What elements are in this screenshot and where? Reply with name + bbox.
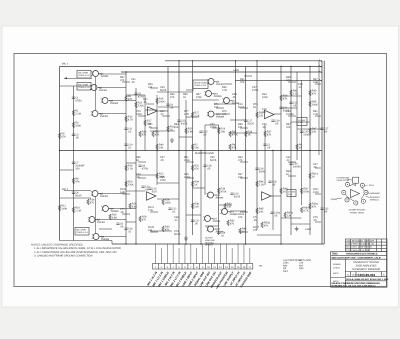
- resistor R16: [109, 214, 111, 220]
- resistor R19: [139, 131, 141, 137]
- bus 2 end tick: [319, 65, 322, 67]
- wire h110: [145, 109, 157, 111]
- capacitor C3: [72, 134, 75, 135]
- wire h199 feedback low: [157, 198, 179, 200]
- resistor R33a: [309, 203, 311, 209]
- resistor R41: [290, 90, 292, 96]
- wire h218: [281, 217, 302, 219]
- svg-text:R4510K: R4510K: [259, 208, 264, 214]
- svg-text:R9347K: R9347K: [238, 156, 243, 162]
- resistor R32: [191, 165, 193, 171]
- svg-text:(GRN): (GRN): [331, 198, 337, 201]
- capacitor C20: [230, 193, 233, 194]
- wire vertical x179: [178, 61, 180, 244]
- svg-text:R3947K: R3947K: [283, 95, 288, 101]
- transistor Q10 leads: [204, 92, 214, 96]
- bus 4 end tick: [319, 79, 322, 81]
- transistor Q12 leads: [207, 112, 217, 116]
- wire h226: [205, 225, 219, 227]
- resistor R44: [239, 228, 241, 234]
- wire stub: [162, 115, 170, 117]
- wire h95: [126, 94, 145, 96]
- wire h122: [291, 121, 310, 123]
- wire vertical x218: [218, 125, 220, 235]
- svg-text:MIC 2: MIC 2: [62, 188, 69, 191]
- wire h104: [214, 103, 236, 105]
- wire Q2 output: [98, 87, 126, 89]
- resistor R37: [264, 131, 266, 137]
- resistor R49: [156, 144, 158, 150]
- transistor Q3 leads: [101, 99, 111, 103]
- wire right edge inner: [321, 61, 323, 244]
- capacitor C2: [263, 144, 266, 145]
- resistor R40: [224, 203, 226, 209]
- resistor R50: [300, 188, 302, 194]
- svg-text:DRAWN: DRAWN: [333, 263, 341, 266]
- resistor R20: [125, 181, 127, 187]
- wire h224: [291, 223, 310, 225]
- wire left edge: [59, 67, 61, 241]
- capacitor C23: [289, 102, 292, 103]
- wire stub: [315, 83, 321, 85]
- wire vertical x192: [192, 61, 194, 235]
- wire stub: [240, 107, 248, 109]
- wire left column junction: [95, 77, 97, 110]
- wire h92: [157, 91, 193, 93]
- wire stub: [138, 115, 146, 117]
- socket leader lines: [336, 179, 370, 199]
- transistor Q16: [208, 226, 214, 232]
- svg-text:INTERSTAGETRIAD A-31X: INTERSTAGETRIAD A-31X: [194, 81, 207, 86]
- svg-text:R7947K: R7947K: [222, 110, 227, 116]
- wire h170: [60, 169, 74, 171]
- wire h108: [281, 107, 297, 109]
- svg-text:TRIO: TRIO: [332, 253, 338, 256]
- svg-text:+48V: +48V: [233, 69, 239, 72]
- svg-text:IN INCHES TOL .XX ±.02 .XXX ±.: IN INCHES TOL .XX ±.02 .XXX ±.005 ANG ±1: [332, 285, 377, 288]
- svg-text:UNIVERSITY SOUND: UNIVERSITY SOUND: [353, 261, 379, 264]
- svg-text:R111100K: R111100K: [313, 188, 319, 194]
- transformer T2 box: [77, 83, 91, 91]
- svg-text:MIC XFMRTRIAD A-11J: MIC XFMRTRIAD A-11J: [78, 84, 90, 89]
- wire h163: [126, 162, 136, 164]
- svg-text:20/20 AMPLIFIER: 20/20 AMPLIFIER: [355, 265, 377, 268]
- wire left box bottom: [60, 240, 107, 242]
- wire stub: [240, 177, 248, 179]
- transistor Q4 leads: [91, 112, 101, 116]
- wire Q8 out: [99, 236, 126, 238]
- wire stub: [150, 127, 158, 129]
- resistor R13: [125, 116, 127, 122]
- wire top bus 1: [165, 60, 322, 62]
- resistor R47a: [284, 212, 286, 218]
- resistor R47: [309, 128, 311, 134]
- svg-text:R3047K: R3047K: [165, 226, 170, 232]
- capacitor C7: [72, 162, 75, 163]
- wire vertical x205: [204, 125, 206, 195]
- resistor R4: [229, 144, 231, 150]
- wire step vertical: [106, 240, 112, 242]
- svg-text:+ PIN 1: + PIN 1: [367, 184, 375, 187]
- transistor Q9: [208, 79, 214, 85]
- wire h117: [186, 116, 199, 118]
- socket amplifier triangle: [351, 190, 360, 198]
- wire Q3 output: [109, 100, 136, 102]
- wire stub: [288, 115, 296, 117]
- wire top bus 2 (B+): [60, 66, 323, 68]
- svg-text:SCALE: NONE DO NOT SCALE SHT: SCALE: NONE DO NOT SCALE SHT 1 OF 1: [346, 278, 389, 281]
- capacitor C1: [72, 97, 75, 98]
- wire h196: [271, 195, 281, 197]
- resistor R21: [152, 131, 154, 137]
- capacitor C13: [177, 120, 180, 121]
- resistor R9: [125, 96, 127, 102]
- svg-text:R5147K: R5147K: [120, 76, 125, 82]
- wire top bus 3 (+48V): [121, 71, 322, 73]
- socket connecting arcs: [345, 183, 364, 201]
- wire stub: [288, 175, 296, 177]
- socket J4 detail: [342, 182, 368, 205]
- wire vertical x168: [167, 67, 169, 151]
- resistor R35: [256, 112, 258, 118]
- wire vertical x301: [301, 80, 303, 205]
- resistor R24: [162, 199, 164, 205]
- resistor R15: [156, 98, 158, 104]
- capacitor C27: [320, 128, 323, 129]
- resistor R39: [280, 95, 282, 101]
- capacitor C29a: [270, 212, 273, 213]
- resistor R33: [245, 131, 247, 137]
- resistor R10: [72, 207, 74, 213]
- wire Q1 collector: [99, 73, 126, 75]
- wire stub: [315, 193, 321, 195]
- svg-text:1300-89-002: 1300-89-002: [358, 273, 375, 277]
- wire stub: [138, 161, 146, 163]
- drawing border frame: [14, 54, 387, 287]
- svg-text:R6947K: R6947K: [170, 93, 175, 99]
- svg-text:UNLESS OTHERWISE SPECIFIED DIM: UNLESS OTHERWISE SPECIFIED DIMENSIONS: [332, 282, 381, 285]
- wire stub: [240, 161, 248, 163]
- wire vertical x126: [125, 72, 127, 244]
- svg-text:3. CHASSIS AND FRAME GROUND CO: 3. CHASSIS AND FRAME GROUND CONNECTION: [34, 254, 93, 257]
- transistor Q8: [93, 234, 99, 240]
- capacitor C16: [148, 188, 151, 189]
- wire vertical x319: [318, 61, 320, 155]
- wire left column junction low: [95, 197, 97, 233]
- wire stub: [150, 87, 158, 89]
- ground symbol G3: [170, 138, 174, 142]
- svg-text:MIC XFMRTRIAD A-11J: MIC XFMRTRIAD A-11J: [76, 229, 88, 234]
- wire mid ground bus: [60, 150, 323, 152]
- transformer T1 box: [77, 71, 91, 79]
- transistor Q11: [224, 98, 230, 104]
- resistor R49a: [300, 207, 302, 213]
- resistor R31: [229, 131, 231, 137]
- wire stub: [224, 83, 232, 85]
- capacitor C10: [141, 186, 144, 187]
- svg-text:R8722K: R8722K: [286, 123, 291, 129]
- svg-text:R4022K: R4022K: [227, 203, 232, 209]
- wire stub: [138, 177, 146, 179]
- svg-text:BRN/WHT: BRN/WHT: [371, 192, 381, 195]
- wire h191: [126, 190, 145, 192]
- transistor Q4: [92, 111, 98, 117]
- wire input line 4: [60, 197, 92, 199]
- wire h125: [205, 124, 219, 126]
- title block: [331, 239, 387, 287]
- wire stub: [216, 107, 224, 109]
- wire vertical x157: [156, 95, 158, 185]
- resistor R2: [191, 144, 193, 150]
- wire stub: [150, 231, 158, 233]
- terminal strip riser wires: [155, 244, 249, 264]
- resistor R8: [72, 178, 74, 184]
- transistor Q12: [208, 111, 214, 117]
- socket keyway box: [353, 177, 359, 183]
- wire right edge outer: [323, 61, 325, 244]
- wire h137: [179, 136, 193, 138]
- resistor R23: [167, 126, 169, 132]
- wire vertical x145: [144, 95, 146, 151]
- wire stub: [240, 211, 248, 213]
- wire top bus 4: [235, 79, 322, 81]
- svg-text:R6122K: R6122K: [240, 78, 245, 84]
- op-amp U4: [262, 192, 272, 200]
- wire stub: [186, 177, 194, 179]
- resistor R31a: [309, 173, 311, 179]
- svg-text:R3810K: R3810K: [194, 203, 199, 209]
- op-amp U2: [265, 110, 275, 118]
- svg-text:APPD: APPD: [333, 272, 339, 275]
- capacitor C25: [300, 131, 303, 132]
- bus 1 end tick: [319, 60, 322, 62]
- resistor R46: [256, 181, 258, 187]
- resistor R17: [144, 120, 146, 126]
- transistor Q14 leads: [220, 210, 230, 214]
- capacitor C4: [72, 192, 75, 193]
- svg-text:+24V: +24V: [305, 228, 311, 231]
- transistor Q6: [103, 206, 109, 212]
- svg-text:R4910K: R4910K: [159, 144, 164, 150]
- op-amp U1: [148, 107, 158, 115]
- capacitor C11: [124, 128, 127, 129]
- transistor Q16 leads: [206, 227, 216, 231]
- wire stub: [288, 161, 296, 163]
- resistor R27: [191, 112, 193, 118]
- svg-text:R3247K: R3247K: [194, 165, 199, 171]
- wire h175: [136, 174, 157, 176]
- svg-text:R4710K: R4710K: [312, 128, 317, 134]
- svg-text:9545 COZYCROFT AVE · CHATSWORT: 9545 COZYCROFT AVE · CHATSWORTH, CALIF.: [332, 257, 382, 260]
- wire h111 feedback: [157, 110, 168, 112]
- wire stub: [150, 211, 158, 213]
- capacitor C9: [166, 104, 169, 105]
- transistor Q7 leads: [88, 218, 98, 222]
- resistor R42: [227, 220, 229, 226]
- svg-text:VANGUARD ELECTRONICS: VANGUARD ELECTRONICS: [346, 253, 378, 256]
- transistor Q2 leads: [90, 86, 100, 90]
- svg-text:R8310K: R8310K: [174, 123, 179, 129]
- wire vertical x235: [235, 61, 237, 151]
- wire vertical x281: [280, 67, 282, 245]
- transistor Q5: [92, 191, 98, 197]
- svg-text:R2910K: R2910K: [221, 128, 226, 134]
- wire vertical x257: [256, 61, 258, 230]
- choke L2 box: [287, 190, 296, 197]
- transistor Q15 leads: [203, 217, 213, 221]
- wire h107: [158, 106, 179, 108]
- capacitor C21: [279, 107, 282, 108]
- transistor Q14: [222, 209, 228, 215]
- wire h100: [193, 99, 219, 101]
- wire h211: [230, 210, 246, 212]
- resistor R25: [185, 128, 187, 134]
- resistor R48: [280, 188, 282, 194]
- wire vertical x265: [264, 125, 266, 185]
- transistor Q1 leads: [91, 72, 101, 76]
- wire stub: [315, 167, 321, 169]
- wire h129: [297, 128, 322, 130]
- svg-text:R2147K: R2147K: [155, 131, 160, 137]
- resistor R34: [191, 181, 193, 187]
- ground symbol G2: [184, 236, 188, 240]
- wire vertical x273: [272, 151, 274, 231]
- wire Q5 out: [98, 193, 126, 195]
- wire h120: [230, 119, 246, 121]
- capacitor C28: [268, 181, 271, 182]
- wire vertical x201: [200, 151, 202, 245]
- wire input line 3: [64, 190, 91, 192]
- choke L1 box: [297, 118, 307, 126]
- resistor R18: [125, 165, 127, 171]
- wire stub: [186, 89, 194, 91]
- capacitor C17: [244, 120, 247, 121]
- svg-text:FRONT VIEW: FRONT VIEW: [350, 212, 365, 215]
- svg-text:A REV PER ECO 1042 8-4 JW: A REV PER ECO 1042 8-4 JW: [346, 243, 373, 246]
- capacitor C6: [116, 223, 119, 224]
- svg-text:MIC 1: MIC 1: [62, 63, 69, 66]
- wire stub: [288, 81, 296, 83]
- wire stub: [244, 75, 252, 77]
- resistor R22: [156, 173, 158, 179]
- resistor R6: [296, 144, 298, 150]
- wire vertical x73: [72, 86, 74, 241]
- wire stub: [240, 127, 248, 129]
- wire stub: [122, 81, 130, 83]
- transistor Q6 leads: [101, 207, 111, 211]
- resistor R26: [129, 203, 131, 209]
- transformer T3 box: [75, 228, 89, 236]
- wire vertical x186: [185, 100, 187, 244]
- resistor R3: [72, 122, 74, 128]
- capacitor C22: [191, 220, 194, 221]
- transistor Q2: [91, 85, 97, 91]
- transistor Q15: [205, 216, 211, 222]
- wire vertical x291: [290, 67, 292, 236]
- wire stub: [315, 115, 321, 117]
- svg-text:2. ALL CAPACITANCE VALUES ARE: 2. ALL CAPACITANCE VALUES ARE IN MICROFA…: [33, 251, 117, 254]
- svg-text:SCHEMATIC DIAGRAM: SCHEMATIC DIAGRAM: [352, 268, 381, 271]
- transistor Q13 leads: [206, 193, 216, 197]
- capacitor C26: [255, 168, 258, 169]
- wire stub: [122, 193, 130, 195]
- svg-text:NOTES: UNLESS OTHERWISE SPECIF: NOTES: UNLESS OTHERWISE SPECIFIED: [31, 244, 83, 247]
- wire input line 1: [64, 77, 92, 79]
- wire step joint: [111, 241, 113, 245]
- input arrow 1: [64, 77, 67, 79]
- transistor Q10: [206, 91, 212, 97]
- wire vertical x310: [309, 67, 311, 236]
- capacitor C29: [124, 144, 127, 145]
- capacitor C15: [199, 131, 202, 132]
- transistor Q1: [93, 71, 99, 77]
- resistor R11: [135, 102, 137, 108]
- wire input line 2: [60, 85, 92, 87]
- transistor Q13: [208, 192, 214, 198]
- bus 3 end tick: [319, 71, 322, 73]
- wire stub: [315, 221, 321, 223]
- wire h222: [126, 221, 136, 223]
- capacitor C24: [217, 232, 220, 233]
- svg-text:C R17 WAS 4.7K 11-2 DH: C R17 WAS 4.7K 11-2 DH: [346, 249, 370, 252]
- resistor R1: [72, 110, 74, 116]
- resistor R5: [58, 133, 60, 139]
- wire vertical x297: [296, 72, 298, 160]
- wire h205: [219, 204, 232, 206]
- capacitor C32: [320, 208, 323, 209]
- capacitor C14: [124, 228, 127, 229]
- wire h133: [230, 132, 257, 134]
- capacitor C30: [289, 163, 292, 164]
- wire h114b: [274, 113, 281, 115]
- resistor R50a: [261, 222, 263, 228]
- resistor R38: [191, 203, 193, 209]
- wire h131: [150, 130, 175, 132]
- resistor R45: [256, 208, 258, 214]
- resistor R30: [162, 226, 164, 232]
- capacitor C5: [134, 93, 137, 94]
- svg-text:B C11 WAS .02 MF 9-12 JW: B C11 WAS .02 MF 9-12 JW: [346, 246, 371, 249]
- wire vertical x136: [135, 88, 137, 244]
- terminal strip TB1: [153, 264, 253, 270]
- wire Q6 out: [109, 208, 136, 210]
- wire h183: [157, 182, 179, 184]
- svg-text:SYM REVISIONS DATE APP: SYM REVISIONS DATE APP: [346, 240, 374, 243]
- transistor Q9 leads: [207, 80, 217, 84]
- transistor Q3: [102, 98, 108, 104]
- wire vertical x245: [245, 67, 247, 245]
- wire Q4 output: [99, 113, 126, 115]
- wire h235: [257, 234, 281, 236]
- svg-text:PHANTOM GND: PHANTOM GND: [195, 152, 214, 155]
- wire bottom ground bus: [112, 243, 324, 245]
- wire stub: [122, 213, 130, 215]
- resistor R45: [309, 101, 311, 107]
- svg-text:J4 AMP SOCKET: J4 AMP SOCKET: [349, 209, 367, 212]
- capacitor C12: [168, 208, 171, 209]
- op-amp U3: [147, 192, 157, 200]
- resistor R43: [309, 90, 311, 96]
- wire stub: [186, 161, 194, 163]
- wire stub: [212, 127, 220, 129]
- transformer T4 box: [193, 80, 208, 89]
- transistor Q11 leads: [222, 99, 232, 103]
- transistor Q8 leads: [92, 235, 102, 239]
- transistor Q5 leads: [91, 192, 101, 196]
- wire stub: [240, 231, 248, 233]
- resistor R29: [218, 128, 220, 134]
- wire h231: [150, 230, 172, 232]
